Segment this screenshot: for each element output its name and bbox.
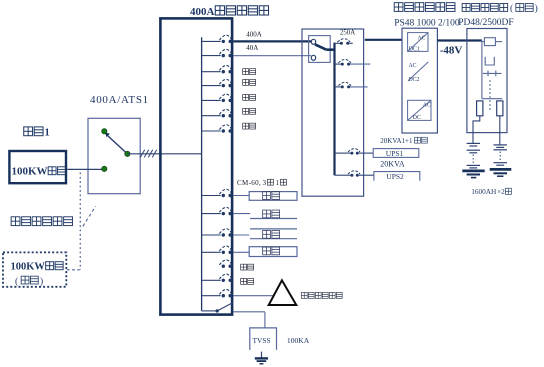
generator box 100KW — [9, 151, 66, 183]
wire to aircon3 — [233, 234, 249, 236]
aircon1 box — [249, 192, 297, 201]
svg-text:100KW: 100KW — [12, 166, 48, 178]
hatch marks on ATS output wire — [140, 150, 156, 158]
svg-text:): ) — [40, 276, 43, 287]
svg-text:1: 1 — [276, 179, 280, 187]
svg-text:): ) — [535, 3, 538, 14]
svg-text:400A: 400A — [246, 31, 262, 39]
aircon4 box — [249, 247, 297, 257]
svg-text:20KVA1+1: 20KVA1+1 — [380, 137, 413, 145]
dashed future switch blade — [83, 206, 96, 226]
label 备用 — [243, 123, 256, 129]
svg-text:(: ( — [510, 3, 513, 14]
svg-text:1600AH: 1600AH — [471, 187, 497, 196]
svg-text:20KVA: 20KVA — [380, 160, 405, 169]
aircon3 underline — [250, 238, 297, 240]
breaker UPS2 row — [335, 174, 351, 176]
generator box text 油机 — [48, 167, 65, 175]
wire ATS output to busbar — [127, 153, 201, 155]
label 空调 4 — [263, 247, 280, 255]
DC feed cabinet outline — [302, 29, 364, 196]
wire to capacitor bank — [233, 295, 273, 297]
wire fuse header — [482, 98, 503, 100]
svg-text:(: ( — [15, 276, 18, 287]
breaker capacitor row — [202, 295, 221, 297]
svg-text:40A: 40A — [246, 44, 258, 52]
shunt — [485, 57, 494, 65]
aircon2 underline — [250, 218, 297, 220]
DC panel outline — [467, 29, 507, 133]
breaker aircon2 row — [202, 213, 221, 215]
wire to aircon1 — [233, 195, 249, 197]
capacitor bank delta — [269, 280, 297, 305]
ATS contact output — [125, 151, 130, 156]
transfer switch contact 1 — [311, 39, 315, 44]
label: mains 市电1 — [24, 127, 43, 136]
breaker aircon3 row — [202, 234, 221, 236]
wire to aircon2 — [233, 213, 250, 215]
dashed wire from future generator box — [67, 269, 80, 271]
breaker 400A feeder row — [202, 40, 221, 42]
label 备用 2 — [241, 264, 254, 270]
label 空调 2 — [263, 210, 280, 218]
label 其他 — [243, 108, 256, 114]
breaker spare row — [202, 130, 221, 132]
wire to aircon4 — [233, 251, 249, 253]
rectifier module AC/DC2 — [408, 62, 428, 81]
future generator dotted box — [3, 252, 66, 286]
battery string 1 — [462, 143, 484, 177]
svg-text:100KA: 100KA — [287, 336, 310, 345]
label 中水 — [243, 94, 256, 100]
TVSS box open-bottom — [250, 328, 277, 350]
rectifier module AC/DC spare — [408, 100, 431, 120]
label 直流配电屏（低阳） — [462, 3, 508, 11]
wire 250A to rectifier — [365, 39, 402, 41]
label 空调 3 — [263, 230, 280, 238]
ground — [261, 352, 263, 358]
svg-text:DC: DC — [413, 115, 421, 121]
label 空调 1 — [263, 192, 280, 200]
svg-text:CM-60,: CM-60, — [237, 179, 261, 187]
aircon3 overline — [250, 228, 297, 230]
breaker aircon4 row — [202, 251, 221, 253]
label 电容无功补偿 — [301, 292, 342, 298]
svg-text:AC: AC — [409, 63, 417, 69]
svg-text:TVSS: TVSS — [253, 336, 271, 345]
UPS2 bracket box — [374, 172, 420, 181]
label 照明 — [243, 69, 256, 75]
battery string 2 — [490, 145, 512, 176]
svg-text:DC2: DC2 — [409, 77, 420, 83]
breaker 40A feeder row — [202, 55, 221, 57]
svg-text:1: 1 — [45, 128, 50, 139]
dashed link — [489, 80, 491, 112]
svg-text:PD48/2500DF: PD48/2500DF — [458, 18, 513, 28]
svg-text:UPS1: UPS1 — [386, 149, 404, 158]
svg-text:400A: 400A — [190, 6, 215, 18]
svg-text:UPS2: UPS2 — [386, 172, 404, 181]
breaker other row — [202, 115, 221, 117]
breaker aircon1 row — [202, 195, 221, 197]
breaker spare3 row — [202, 279, 221, 281]
svg-text:DC1: DC1 — [409, 47, 420, 53]
svg-text:-48V: -48V — [440, 45, 463, 57]
svg-text:AC: AC — [418, 35, 426, 41]
ATS contact top — [102, 129, 107, 134]
breaker UPS1 row — [335, 152, 351, 154]
svg-text:100KW: 100KW — [11, 262, 46, 273]
wire fuse left to battery 1 — [473, 116, 480, 143]
fuse main — [482, 41, 485, 43]
svg-text:250A: 250A — [340, 29, 355, 36]
label: 400A low-voltage distribution cabinet title — [190, 6, 215, 18]
label title CJK 低压配电柜 — [215, 6, 268, 15]
svg-text:AC: AC — [423, 102, 431, 108]
dotted wire future generator tie — [79, 173, 81, 270]
wire generator to ATS — [67, 168, 102, 170]
wire blade to riser — [326, 48, 334, 51]
label: 油机并联开关 parallel switch — [11, 217, 72, 226]
contact switch — [483, 72, 502, 74]
svg-text:3: 3 — [263, 179, 267, 187]
wire 400A to transfer switch — [233, 40, 311, 42]
battery fuse left — [477, 101, 483, 116]
label 高频开关电源 — [394, 3, 455, 12]
svg-text:400A/ATS1: 400A/ATS1 — [90, 94, 149, 106]
breaker stub row 1 — [335, 63, 341, 65]
future generator text 油机 — [46, 262, 63, 270]
breaker fire row — [202, 85, 221, 87]
breaker lighting row — [202, 71, 221, 73]
UPS1 box — [373, 149, 419, 158]
label 消防 — [243, 79, 256, 85]
wire -48V rectifier to DC panel — [437, 39, 482, 41]
breaker greywater row — [202, 99, 221, 101]
ATS blade arrowhead — [105, 132, 110, 137]
DC feed riser — [333, 43, 335, 176]
breaker 250A — [336, 42, 340, 44]
main busbar riser — [201, 37, 203, 311]
breaker stub row 2 — [335, 86, 341, 88]
rectifier cabinet outline — [402, 28, 437, 133]
breaker spare2 row — [222, 265, 225, 268]
transfer switch box — [309, 36, 331, 63]
ATS blade — [108, 136, 127, 154]
label 备用 3 — [241, 278, 254, 284]
wire fuse right to battery 2 — [499, 116, 501, 145]
transfer switch contact 2 — [311, 55, 315, 60]
battery fuse right — [497, 101, 503, 116]
svg-text:PS48 1000 2/100: PS48 1000 2/100 — [394, 19, 460, 29]
wire 40A to transfer switch — [233, 55, 311, 57]
ATS contact bottom — [102, 166, 107, 171]
rectifier module AC/DC1 — [408, 33, 428, 52]
transfer switch blade — [315, 44, 326, 49]
disconnect switch bottom row — [202, 310, 216, 312]
DC panel internal riser — [481, 41, 483, 99]
main cabinet 400A outline — [160, 18, 232, 314]
svg-text:×2: ×2 — [497, 187, 505, 196]
wire cabinet to TVSS — [233, 311, 265, 313]
ATS box — [88, 118, 140, 193]
